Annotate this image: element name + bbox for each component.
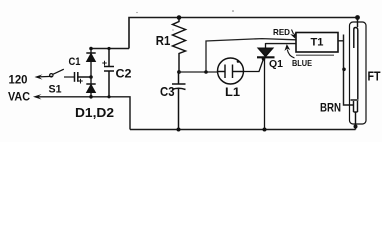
- svg-text:S1: S1: [49, 84, 62, 96]
- node doubler mid junction: [89, 75, 93, 79]
- node R1 C3 L1 junction: [177, 70, 181, 74]
- arrow AC line upper: [35, 74, 53, 79]
- wire L1 gate row: [179, 71, 218, 73]
- arrow RED pointer: [292, 30, 296, 38]
- wire Q1 anode to T1 blue lead: [266, 43, 297, 45]
- arrow AC line lower: [33, 94, 42, 99]
- diode D1: [86, 53, 95, 62]
- wire L1 to gate: [244, 59, 264, 72]
- svg-text:BRN: BRN: [320, 101, 341, 115]
- wire T1 box bottom shadow: [296, 54, 334, 56]
- svg-text:FT: FT: [368, 70, 381, 84]
- svg-text:120: 120: [9, 73, 28, 87]
- transformer T1: [296, 33, 338, 53]
- tube bottom electrode: [351, 100, 359, 130]
- svg-text:BLUE: BLUE: [292, 58, 312, 68]
- node D1 cathode junction: [89, 47, 93, 51]
- node C2 bottom junction: [107, 95, 110, 98]
- neon lamp L1: [218, 58, 244, 84]
- svg-text:C1: C1: [69, 56, 81, 68]
- arrow BLUE pointer: [286, 45, 295, 58]
- diode D2: [86, 84, 95, 93]
- node D2 anode junction: [89, 95, 93, 99]
- fluorescent tube FT glass: [350, 22, 367, 124]
- svg-text:C3: C3: [160, 85, 175, 99]
- capacitor C2: [104, 49, 114, 97]
- svg-text:RED: RED: [273, 27, 290, 37]
- capacitor C3: [172, 72, 186, 130]
- svg-text:T1: T1: [311, 37, 324, 49]
- svg-text:VAC: VAC: [8, 90, 30, 104]
- svg-text:Q1: Q1: [269, 58, 283, 70]
- node gate junction: [262, 57, 266, 61]
- node anode feed junction: [204, 70, 208, 74]
- node Q1 cathode junction: [263, 128, 267, 132]
- svg-text:L1: L1: [225, 87, 241, 99]
- wire T1 to tube bottom: [338, 35, 354, 106]
- wire upper-left (doubler top): [91, 48, 130, 50]
- wire C1 to doubler node: [90, 49, 92, 97]
- wire bottom rail: [130, 129, 356, 131]
- switch S1: [50, 69, 75, 77]
- capacitor C1: [75, 72, 92, 82]
- wire top rail: [129, 18, 358, 49]
- node T1 wire dot: [342, 68, 346, 72]
- node tube top junction: [355, 15, 360, 20]
- node C2 top junction: [107, 47, 110, 50]
- wire anode feed: [206, 39, 296, 72]
- wire lower-left return: [36, 97, 130, 130]
- speck artifacts: [136, 10, 233, 30]
- svg-text:D1,D2: D1,D2: [75, 106, 114, 120]
- node R1 top junction: [177, 15, 182, 20]
- tube top electrode: [354, 18, 358, 100]
- resistor R1: [173, 18, 186, 73]
- node L1 gas dot: [237, 60, 240, 63]
- svg-text:R1: R1: [156, 34, 171, 48]
- SCR Q1: [257, 43, 275, 130]
- svg-text:+: +: [78, 76, 83, 86]
- node C3 bottom junction: [177, 128, 181, 132]
- node tube bottom junction: [354, 125, 358, 129]
- svg-text:+: +: [102, 58, 107, 68]
- svg-text:C2: C2: [116, 67, 132, 81]
